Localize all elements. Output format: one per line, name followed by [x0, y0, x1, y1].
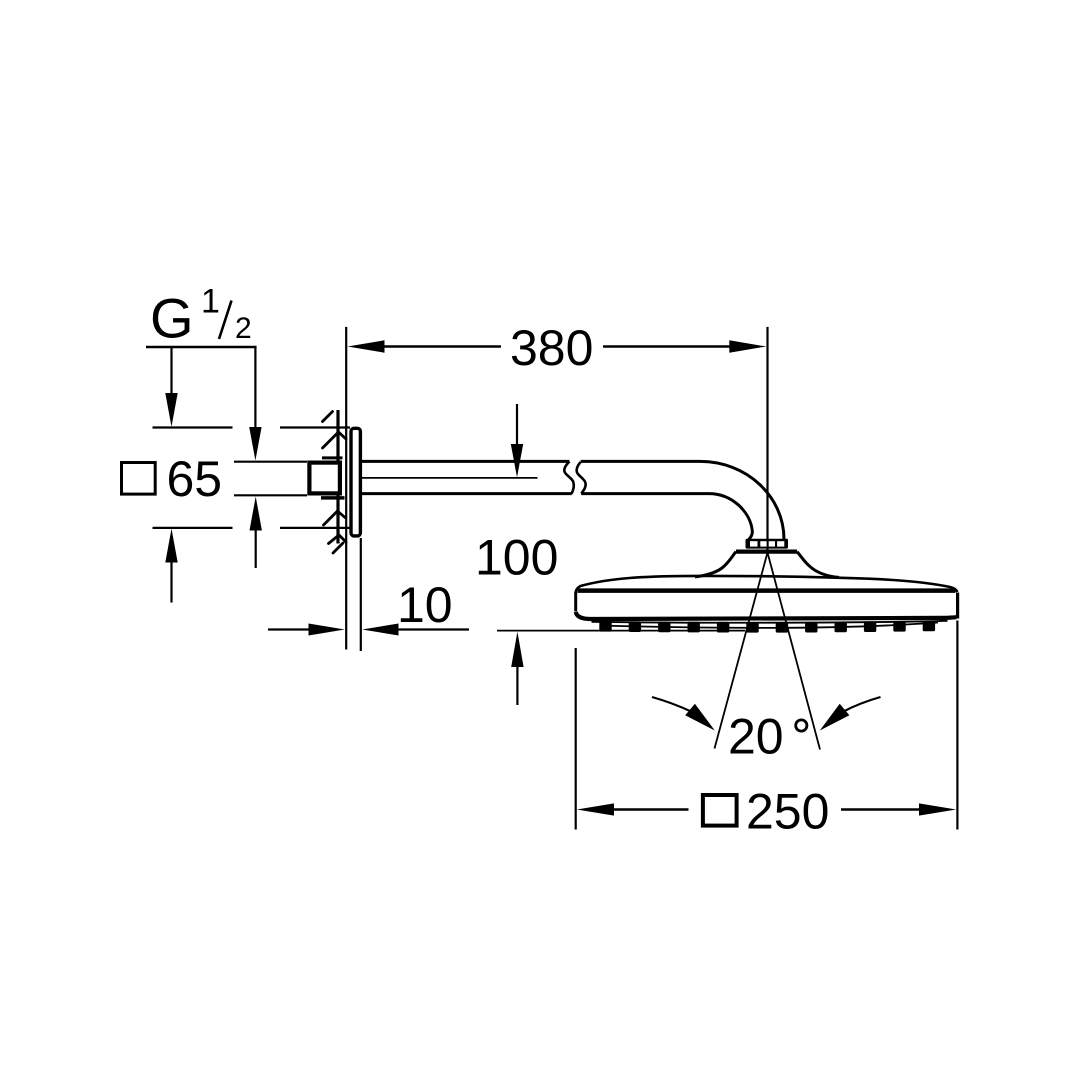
dimension 250 line	[577, 803, 956, 815]
dimension 100 arrow down	[511, 404, 523, 477]
extension line head left	[575, 648, 577, 830]
head body right edge	[956, 593, 959, 619]
collar behind wall top	[322, 456, 343, 459]
spray face reference line	[497, 630, 745, 632]
arm mid reference line	[362, 477, 538, 479]
angle arc arrow left	[652, 697, 715, 731]
flange face extension line	[360, 538, 362, 651]
dimension 65 arrow top	[165, 348, 177, 427]
shower arm top edge	[362, 461, 784, 539]
wall hatching	[323, 412, 347, 554]
head rim thick line	[578, 588, 956, 593]
neck right outline	[797, 552, 839, 578]
swivel nut	[746, 539, 789, 549]
svg-text:20: 20	[728, 709, 784, 765]
neck left outline	[695, 552, 736, 577]
spray face outline	[592, 621, 948, 623]
swivel angle ray right	[768, 553, 821, 750]
label G 1/2	[150, 283, 252, 350]
svg-text:380: 380	[510, 320, 593, 376]
svg-text:G: G	[150, 287, 194, 350]
svg-text:10: 10	[397, 577, 453, 633]
extension line head right	[956, 621, 958, 830]
swivel angle ray left	[715, 553, 768, 749]
dimension 65 extension lines	[153, 428, 351, 528]
dome top plate under nut	[736, 549, 797, 553]
wall line	[336, 410, 339, 544]
svg-text:100: 100	[475, 530, 558, 586]
spray nozzles	[599, 621, 935, 633]
svg-text:1: 1	[201, 283, 220, 321]
collar behind wall bottom	[321, 496, 345, 500]
dimension 380 line	[348, 340, 767, 352]
square symbol 250	[703, 795, 737, 826]
value 20 deg	[728, 709, 807, 765]
head body left edge	[574, 592, 577, 612]
extension line head axis	[766, 327, 768, 553]
leader line G1/2	[146, 347, 262, 461]
square symbol 65	[122, 463, 156, 495]
dome top outline	[576, 576, 957, 592]
head body bottom edge	[576, 612, 957, 619]
svg-text:65: 65	[167, 451, 223, 507]
wall flange escutcheon	[351, 428, 360, 536]
angle arc arrow right	[820, 697, 881, 731]
square union G1/2	[309, 463, 340, 494]
dimension 100 arrow up	[511, 632, 523, 705]
dimension 10 line	[268, 624, 469, 636]
extension stub lines of square union	[234, 462, 307, 496]
arrow up to square union bottom	[250, 497, 262, 569]
shower arm bottom edge	[362, 494, 753, 540]
dimension 65 arrow bottom	[165, 529, 177, 603]
pipe break symbol	[564, 461, 585, 493]
spray face rim contour	[600, 623, 938, 628]
extension line wall plane	[345, 327, 347, 650]
svg-text:250: 250	[746, 784, 829, 840]
svg-text:2: 2	[235, 312, 252, 345]
